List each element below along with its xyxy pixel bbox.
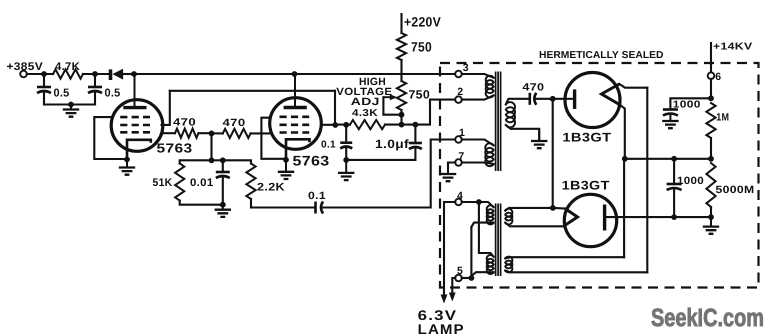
terminal 2 — [455, 96, 462, 103]
tube V3 1B3GT envelope — [565, 73, 620, 128]
wire T1 sec top to C7 — [506, 99, 530, 105]
junction 0.01 bottom — [220, 202, 226, 208]
wire R1 to diode D1 — [83, 73, 109, 75]
wire T2 prim upper bottom — [471, 223, 493, 227]
svg-text:4.3K: 4.3K — [352, 108, 379, 119]
transformer T1 core — [495, 72, 497, 172]
svg-text:3: 3 — [463, 62, 469, 74]
junction rail/1M/5000M — [708, 156, 714, 162]
wire V1 grid to cathode — [94, 117, 127, 159]
terminal 7 — [455, 159, 462, 166]
wire filament/cap rail — [625, 158, 711, 160]
wire screen rail — [170, 90, 335, 92]
wire V2 screen to rail drop — [321, 124, 335, 126]
junction R4/pot — [399, 122, 405, 128]
junction V2 cathode — [283, 157, 289, 163]
svg-text:0.5: 0.5 — [54, 88, 70, 100]
capacitor C9 1000 — [673, 159, 675, 184]
svg-text:5763: 5763 — [293, 153, 330, 169]
wire T2 prim lower bottom — [471, 272, 493, 276]
wire sec lower bottom — [505, 271, 647, 273]
wire node down to 51K/0.01 — [210, 133, 212, 160]
junction 0.1 bypass top — [343, 122, 349, 128]
resistor R7 51K — [180, 160, 212, 163]
resistor R10 5000M — [706, 163, 715, 207]
junction rail/V3 fil — [622, 156, 628, 162]
svg-text:HERMETICALLY SEALED: HERMETICALLY SEALED — [539, 50, 664, 61]
wire V1 screen to rail — [162, 91, 170, 125]
capacitor C4 0.1 screen bypass — [345, 125, 347, 143]
resistor R9 1M — [706, 103, 715, 138]
svg-text:ADJ: ADJ — [351, 96, 380, 108]
wire up to rail — [623, 159, 625, 257]
ground G8 — [669, 114, 671, 121]
junction bus/V2 plate — [292, 71, 298, 77]
V4 filament chevron — [565, 209, 578, 226]
junction V1 cathode — [124, 157, 130, 163]
junction C5 top — [413, 122, 419, 128]
wire sec to V4 fil bottom — [505, 223, 565, 227]
wire R6 to V2 grid — [251, 132, 271, 134]
node +14KV output — [710, 43, 712, 73]
svg-text:4: 4 — [457, 190, 463, 202]
svg-text:+385V: +385V — [7, 61, 44, 73]
junction rail/C9 — [671, 156, 677, 162]
junction input/C1 — [41, 71, 47, 77]
wire sec to V4 fil top — [505, 208, 553, 211]
svg-text:2: 2 — [457, 86, 463, 98]
T1 primary upper winding — [462, 74, 494, 78]
capacitor C7 470 — [528, 93, 531, 105]
junction 0.01 node — [220, 157, 226, 163]
wire C7 to V3 plate — [535, 98, 573, 100]
junction terminal 4 — [476, 199, 482, 205]
svg-text:750: 750 — [409, 88, 431, 102]
wire t4 to lower winding — [479, 202, 494, 257]
resistor R4 4.3K — [350, 120, 385, 129]
T1 primary lower winding — [462, 140, 494, 146]
wire ground node to C5 bottom — [346, 159, 415, 161]
wire R4 to node — [385, 124, 415, 126]
V1 plate — [134, 74, 136, 108]
wire input to R1 — [27, 73, 53, 75]
ground G2 — [126, 160, 128, 168]
resistor R5 470 — [175, 129, 199, 138]
svg-text:0.1: 0.1 — [308, 190, 326, 202]
wire up to V3 fil top — [646, 88, 648, 273]
wire node X down to V4 — [552, 99, 554, 208]
capacitor C1 0.5 — [43, 74, 45, 87]
wire B+ bus — [134, 73, 402, 75]
junction R1/C2 — [92, 71, 98, 77]
terminal 5 — [455, 275, 462, 282]
svg-text:+14KV: +14KV — [713, 42, 753, 53]
tube V2 5763 envelope — [270, 98, 322, 150]
wire R2 to pot — [400, 60, 402, 81]
wire V4 plate rail — [605, 216, 710, 218]
ground G5 — [345, 160, 347, 173]
capacitor C3 0.01 — [222, 160, 224, 172]
terminal 4 — [455, 199, 462, 206]
wire to terminal 5 — [470, 227, 472, 278]
svg-text:1000: 1000 — [673, 100, 701, 111]
V3 filament leads — [619, 84, 647, 88]
svg-text:0.01: 0.01 — [190, 177, 214, 189]
node +220V supply — [400, 14, 402, 33]
junction wiper/pot bottom — [399, 112, 405, 118]
capacitor C2 0.5 — [94, 74, 96, 87]
tube V4 1B3GT envelope — [564, 194, 616, 246]
svg-text:470: 470 — [223, 117, 246, 129]
wire V2 grid to cathode — [261, 118, 286, 159]
wire C1-C2 bottoms — [44, 103, 95, 105]
wire node to terminal 2 — [415, 100, 454, 125]
wire sec lower to V3 fil b — [505, 257, 624, 258]
svg-text:750: 750 — [411, 40, 432, 55]
svg-text:+220V: +220V — [404, 15, 441, 30]
junction node X — [550, 96, 556, 102]
T2 secondary upper winding (V4 filament) — [505, 209, 512, 225]
node +385V input terminal — [20, 71, 27, 78]
wire pot to R4 node — [400, 110, 402, 125]
terminal 7 ground lead — [448, 163, 455, 168]
V4 plate bar — [603, 205, 606, 231]
svg-text:6: 6 — [715, 71, 721, 83]
wire T1 sec bottom to ground — [506, 125, 539, 141]
svg-text:2.2K: 2.2K — [257, 182, 285, 194]
junction R5/R6 — [209, 131, 215, 137]
T2 primary upper winding — [462, 201, 479, 203]
T2 secondary lower winding (V3 filament) — [505, 257, 512, 273]
junction D1/V1 plate — [131, 71, 137, 77]
svg-text:0.5: 0.5 — [105, 88, 121, 100]
V2 grids (dashed) — [280, 116, 310, 119]
junction C4 bottom — [343, 157, 349, 163]
junction out/1M/C8 — [708, 95, 714, 101]
svg-text:470: 470 — [173, 117, 196, 129]
wire wiper return — [383, 97, 401, 115]
svg-text:1000: 1000 — [677, 175, 704, 187]
svg-text:LAMP: LAMP — [418, 321, 465, 336]
junction terminal 5 — [469, 275, 475, 281]
resistor R8 2.2K — [223, 160, 251, 163]
terminal 6 — [708, 72, 715, 79]
junction screen/4.3K — [332, 122, 338, 128]
junction C bottoms — [68, 102, 74, 108]
capacitor C8 1000 — [670, 98, 711, 109]
potentiometer R3 750 HV adj — [397, 81, 406, 110]
V2 cathode — [286, 139, 310, 160]
wire V1 g3 to R5 — [163, 132, 176, 134]
junction plate rail/5000M — [708, 214, 714, 220]
hermetically sealed enclosure (dashed) — [440, 63, 759, 288]
transformer T2 core — [495, 204, 497, 277]
svg-text:5000M: 5000M — [716, 184, 755, 196]
diode D1 (points left) — [109, 69, 113, 80]
svg-text:5: 5 — [457, 265, 463, 277]
svg-text:7: 7 — [458, 151, 464, 163]
V3 plate bar — [573, 89, 576, 109]
wire bus to terminal 3 — [402, 73, 455, 75]
wire terminal 5 to lamp — [452, 278, 455, 293]
svg-text:51K: 51K — [153, 177, 173, 189]
capacitor C5 1.0uf — [414, 125, 416, 143]
ground G7 — [538, 130, 540, 141]
wire R5 to node — [199, 132, 212, 134]
ground G1 — [70, 105, 72, 110]
junction 51K node — [209, 157, 215, 163]
tube V1 5763 envelope — [111, 100, 163, 152]
svg-text:0.1: 0.1 — [321, 140, 336, 151]
wire rail drop — [334, 91, 336, 125]
ground G3 — [222, 205, 224, 210]
ground G6 — [447, 163, 449, 175]
V1 grids (dashed) — [120, 116, 150, 119]
svg-text:1: 1 — [459, 127, 465, 139]
svg-text:1B3GT: 1B3GT — [562, 131, 611, 145]
resistor R2 750 — [397, 33, 406, 60]
wire node to R6 — [212, 132, 223, 134]
V2 plate — [294, 74, 296, 108]
terminal 1 — [455, 136, 462, 143]
junction plate rail/C9 — [671, 214, 677, 220]
ground G9 — [710, 217, 712, 227]
T1 secondary HV winding — [506, 102, 515, 127]
junction V4 filament — [550, 205, 556, 211]
terminal 3 — [455, 71, 462, 78]
svg-text:470: 470 — [522, 82, 544, 94]
svg-text:1M: 1M — [716, 111, 729, 123]
ground G4 — [285, 160, 287, 172]
svg-text:4.7K: 4.7K — [55, 61, 80, 73]
wire terminal 4 to lamp — [444, 202, 455, 295]
pot wiper arrow — [383, 96, 390, 98]
resistor R6 470 — [223, 129, 251, 138]
resistor R1 4.7K — [53, 69, 83, 78]
capacitor C6 0.1 coupling — [251, 206, 316, 208]
svg-text:1.0μf: 1.0μf — [375, 137, 410, 151]
svg-text:1B3GT: 1B3GT — [562, 179, 610, 193]
svg-text:SeekIC.com: SeekIC.com — [651, 304, 764, 332]
svg-text:5763: 5763 — [157, 140, 193, 155]
V3 filament chevron — [602, 84, 620, 105]
V1 cathode — [127, 140, 151, 160]
